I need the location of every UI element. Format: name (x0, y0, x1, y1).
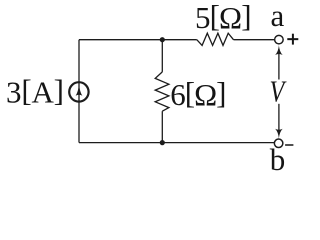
svg-text:6[Ω]: 6[Ω] (170, 75, 225, 112)
voltage arrow upper shaft (278, 49, 280, 80)
wire left vertical (78, 40, 80, 143)
junction dot top (160, 37, 165, 42)
voltage arrow lower head (275, 129, 283, 139)
current source I1 circle (69, 82, 88, 101)
minus sign (285, 144, 293, 146)
svg-text:5[Ω]: 5[Ω] (195, 0, 251, 35)
svg-text:b: b (270, 142, 286, 177)
junction dot bottom (160, 140, 165, 145)
wire bottom horizontal (79, 142, 275, 144)
svg-text:3[A]: 3[A] (6, 73, 64, 110)
wire middle vertical bottom (161, 111, 163, 142)
current source I1 arrowhead (76, 84, 83, 96)
svg-text:V: V (270, 75, 287, 110)
terminal b circle (274, 139, 283, 148)
plus sign (287, 34, 298, 45)
voltage arrow upper head (275, 45, 283, 55)
resistor R2 6[Ohm] zigzag (155, 72, 169, 111)
wire middle vertical top (161, 40, 163, 72)
resistor R1 5[Ohm] zigzag (197, 33, 234, 45)
svg-text:a: a (271, 0, 285, 33)
wire top horizontal left (79, 39, 197, 41)
wire top horizontal right (234, 39, 275, 41)
terminal a circle (275, 35, 284, 44)
voltage arrow lower shaft (278, 104, 280, 135)
